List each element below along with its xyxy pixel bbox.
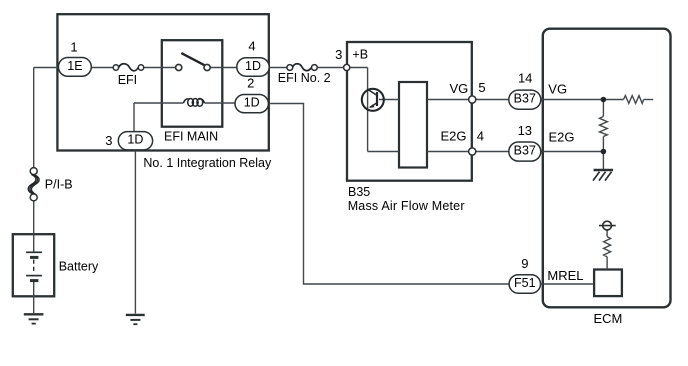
svg-text:4: 4 xyxy=(477,129,484,144)
svg-text:14: 14 xyxy=(518,70,532,85)
svg-text:VG: VG xyxy=(450,81,469,96)
svg-text:Battery: Battery xyxy=(59,260,99,274)
svg-text:3: 3 xyxy=(335,47,342,62)
svg-text:B37: B37 xyxy=(514,91,536,105)
svg-text:4: 4 xyxy=(248,39,255,54)
svg-text:5: 5 xyxy=(478,80,485,95)
svg-text:1: 1 xyxy=(70,40,77,55)
svg-text:E2G: E2G xyxy=(440,129,466,144)
svg-text:F51: F51 xyxy=(514,276,536,290)
svg-text:VG: VG xyxy=(548,81,567,96)
svg-text:9: 9 xyxy=(521,256,528,271)
svg-text:Mass Air Flow Meter: Mass Air Flow Meter xyxy=(348,199,465,213)
svg-text:1D: 1D xyxy=(127,133,143,147)
svg-text:+B: +B xyxy=(352,48,368,62)
svg-text:3: 3 xyxy=(105,133,112,148)
svg-text:EFI: EFI xyxy=(118,73,137,87)
svg-text:13: 13 xyxy=(518,123,532,138)
svg-text:1D: 1D xyxy=(244,95,260,109)
svg-text:P/I-B: P/I-B xyxy=(45,178,73,192)
svg-text:MREL: MREL xyxy=(547,268,583,283)
svg-text:ECM: ECM xyxy=(594,311,623,326)
svg-text:1D: 1D xyxy=(245,59,261,73)
svg-text:B37: B37 xyxy=(514,143,536,157)
svg-text:EFI MAIN: EFI MAIN xyxy=(164,130,218,144)
svg-text:No. 1 Integration Relay: No. 1 Integration Relay xyxy=(143,156,272,170)
svg-text:E2G: E2G xyxy=(549,130,575,145)
svg-text:EFI No. 2: EFI No. 2 xyxy=(278,71,331,85)
svg-text:1E: 1E xyxy=(67,59,82,73)
svg-text:B35: B35 xyxy=(348,185,370,199)
svg-text:2: 2 xyxy=(247,75,254,90)
